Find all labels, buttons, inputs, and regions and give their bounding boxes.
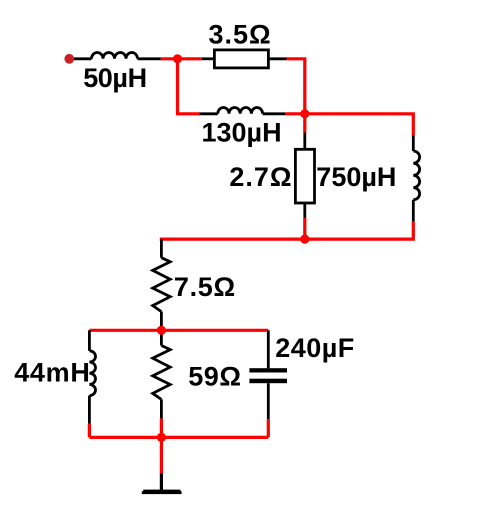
junction node D bbox=[157, 326, 166, 335]
wire 59Ω bottom to node E bbox=[160, 418, 163, 437]
wire from 3.5Ω right side down to node B bbox=[287, 59, 305, 114]
inductor 130µH bbox=[199, 107, 285, 113]
svg-text:2.7Ω: 2.7Ω bbox=[229, 162, 292, 192]
svg-text:50µH: 50µH bbox=[83, 63, 147, 93]
label 3.5Ω bbox=[209, 20, 272, 50]
label 130µH bbox=[202, 118, 282, 148]
junction node C bbox=[300, 235, 309, 244]
junction node B bbox=[300, 109, 309, 118]
wire node B down to 2.7Ω top bbox=[303, 114, 306, 133]
svg-text:240µF: 240µF bbox=[275, 333, 355, 363]
wire 750µH bottom to node C and left to 7.5Ω bbox=[161, 221, 413, 241]
wire top bus of parallel section bbox=[89, 329, 268, 332]
inductor 44mH bbox=[89, 330, 95, 423]
wire from node B right to 750µH top bbox=[305, 114, 414, 136]
wire bottom bus of parallel section bbox=[89, 436, 268, 439]
wire 44mH bottom to bottom bus bbox=[88, 424, 91, 438]
svg-text:750µH: 750µH bbox=[316, 162, 396, 192]
inductor 50µH bbox=[74, 53, 161, 59]
resistor 2.7Ω bbox=[295, 133, 314, 219]
wire from 130µH to node B bbox=[285, 112, 304, 115]
label 44mH bbox=[14, 358, 90, 388]
resistor 59Ω bbox=[153, 330, 171, 418]
svg-text:130µH: 130µH bbox=[202, 118, 282, 148]
resistor 3.5Ω bbox=[202, 50, 287, 68]
capacitor 240µF bbox=[249, 330, 287, 419]
label 2.7Ω bbox=[229, 162, 292, 192]
ground bbox=[142, 473, 182, 494]
svg-text:44mH: 44mH bbox=[14, 358, 90, 388]
wire 240µF bottom to bottom bus bbox=[267, 419, 270, 437]
label 240µF bbox=[275, 333, 355, 363]
svg-text:7.5Ω: 7.5Ω bbox=[174, 272, 236, 302]
terminal dot bbox=[64, 54, 74, 64]
label 7.5Ω bbox=[174, 272, 236, 302]
wire 2.7Ω bottom to node C bbox=[303, 218, 306, 239]
label 59Ω bbox=[188, 362, 241, 392]
inductor 750µH bbox=[413, 135, 419, 221]
svg-text:3.5Ω: 3.5Ω bbox=[209, 20, 272, 50]
wire from node A down and right to 130µH bbox=[178, 59, 200, 114]
svg-text:59Ω: 59Ω bbox=[188, 362, 241, 392]
junction node E bbox=[157, 433, 166, 442]
resistor 7.5Ω bbox=[153, 239, 171, 330]
label 750µH bbox=[316, 162, 396, 192]
wire top row between 50µH and 3.5Ω bbox=[161, 57, 202, 60]
label 50µH bbox=[83, 63, 147, 93]
junction node A bbox=[173, 54, 182, 63]
wire node E down toward ground bbox=[160, 437, 163, 473]
